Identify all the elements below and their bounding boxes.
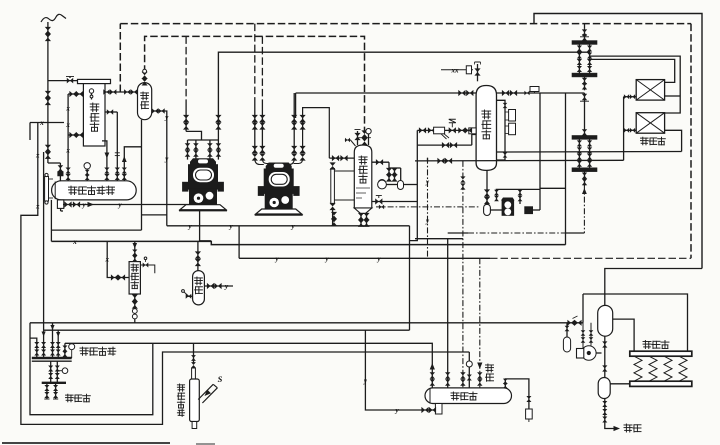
transfer line y=343.3 (manifold to drain drum) (65, 343, 432, 388)
valve on barrel top (477, 64, 479, 81)
svg-text:x: x (65, 147, 70, 155)
drain drum dashed riser x=462.9 (462, 161, 464, 388)
coil evaporator label (643, 341, 651, 349)
ammonia pump (dark) (502, 200, 514, 215)
bypass valves above pump (582, 323, 584, 348)
drum gauge riser x=469.3 (468, 352, 470, 388)
valve pair condenser left y=94 (69, 91, 73, 97)
intercooler left elbow fitting (345, 140, 356, 146)
evaporator crossed box 1 (636, 80, 664, 101)
air line y=241.5 to air separator and oil collector (51, 241, 565, 244)
valve with check flag on y=322.8 feed (567, 320, 571, 326)
wire condenser left bypass vertical x=68.1 (67, 94, 69, 166)
pipe break squiggle top-left (41, 14, 66, 22)
valve pair on C1 riser x=218 (215, 115, 221, 119)
C2 discharge riser x=302.6 over to intercooler (303, 108, 330, 159)
receiver bottom oil pot (57, 200, 63, 209)
wire C1 inlet manifold (186, 131, 201, 140)
svg-text:x: x (72, 238, 77, 246)
charging station label (66, 394, 74, 402)
air separator right vent valve (140, 265, 154, 273)
valve pair feed evaporator 1 (624, 96, 637, 98)
valve pair on line A (442, 142, 446, 148)
liquid line B y=160.9 to evaporator feed drop (415, 159, 624, 162)
receiver level gauge column (45, 177, 49, 202)
intercooler top-left riser with valve (357, 131, 359, 145)
coil evaporator bottom bar (630, 381, 692, 386)
compressor unit C1 suction riser (dashed above) (185, 36, 187, 100)
wire evaporator 2 return down to liquid line (665, 130, 682, 151)
small strainer capsule (398, 181, 404, 190)
barrel level column with pots (497, 100, 506, 160)
wire station branch line 1 to evaporators right side (590, 56, 681, 113)
pump motor (dark box) (525, 207, 533, 214)
wire corner line B to dash-dot drop x=427.5 (427, 158, 429, 161)
svg-text:x: x (39, 119, 44, 127)
compressor base (180, 205, 226, 210)
valve pair on drum inlet x=432.3 (430, 372, 435, 375)
intercooler label (359, 156, 367, 164)
oil separator liquid drain elbow to receiver with up arrow (124, 147, 141, 181)
wire header y=52.2 (218, 52, 589, 119)
C1 manifold drop x=195.9 with valve (195, 140, 197, 160)
float valve feed line y=130.4 (417, 129, 469, 131)
valve on squiggle line (upper) (45, 27, 51, 31)
regulating station riser 5 from transfer line (64, 343, 66, 358)
valve station outlet with double valve (584, 170, 586, 186)
receiver label (69, 186, 77, 194)
valves on C2 riser x=302.6 (300, 115, 306, 119)
valve pairs on y=92 (103, 89, 106, 95)
valve station upper flange bar (572, 41, 597, 45)
wire condenser left connection y=94 (68, 93, 83, 95)
condenser liquid outlet with down arrow to receiver (102, 141, 107, 181)
pump motor box (577, 349, 584, 359)
intercooler right valve cluster (388, 162, 390, 180)
drop to oil pot x=567 (566, 323, 568, 337)
emergency vent body (jin-ji-xie-an) (190, 379, 200, 422)
wire float feed riser x=417.3 down (410, 130, 418, 240)
valves on C2 riser x=262.4 (259, 115, 265, 119)
valve with handwheel on condenser top-left inlet (48, 80, 78, 82)
drops to charging station with valves (50, 361, 52, 383)
evaporator liquid line from barrel right side (497, 151, 682, 154)
wire compressor C1 crankcase oil drain (200, 205, 211, 241)
pressurizing line (jia-ya) dashed drop x=479.8 (479, 258, 481, 388)
wire pot to pump (490, 209, 502, 211)
wire condenser lower-left connection y=135 (68, 134, 83, 136)
wire discharge-to-oil-separator trunk y=36.4 (dashed) (145, 36, 365, 131)
valve station outlet with double valve (584, 75, 586, 90)
receiver drain line y=204.5 with valves (60, 208, 62, 211)
valve station lower flange bar (572, 73, 597, 77)
compressor top cap (266, 163, 292, 170)
charging station bar (jia-an-zhan) (42, 382, 66, 384)
pump suction pot (484, 204, 491, 215)
drain drum label (451, 392, 459, 400)
compressor lower block with sight circles (265, 194, 292, 210)
regulating station riser 4 from feed line with arrow (57, 330, 59, 358)
oil collector label (195, 277, 203, 285)
pump discharge top line (496, 188, 540, 190)
regulating valve with Z-handle (449, 127, 453, 133)
wire vertical x=540 from suction line to pump (539, 93, 541, 210)
valve pair on float feed (419, 127, 423, 133)
emergency vent riser (193, 343, 195, 363)
coil evaporator top bar (630, 351, 692, 356)
regulating station riser 1 elbow from inner frame (30, 338, 37, 358)
condenser vent fitting inside top (89, 89, 93, 93)
drain drum riser x=447.7 (to line y=236) (415, 238, 463, 240)
valves on C2 riser x=294.2 (291, 115, 297, 119)
coil evaporator bottom to capsule B (610, 383, 630, 385)
wire oil separator bottom drain vertical (141, 120, 143, 230)
wire right trunk vertical x=691 (dashed) (690, 24, 692, 259)
wire C2 suction drop corner (295, 93, 297, 118)
page artifact bottom-left streak (2, 442, 170, 444)
pump separator capsule A (598, 305, 613, 336)
valve on oil collector riser (195, 251, 201, 255)
C2 suction riser x=294.2 from suction line (293, 93, 295, 151)
wire C1 riser x=218.4 (217, 119, 219, 140)
intercooler conical bottom (354, 208, 372, 213)
low circ barrel label (482, 110, 491, 119)
C1 manifold drop x=209.9 with valve (209, 140, 211, 160)
air separator label (131, 264, 138, 271)
suction line from barrel left y=93 (296, 92, 477, 94)
svg-text:x: x (104, 256, 109, 264)
C2 riser x=262.4 (dashed above) (261, 36, 263, 100)
compressor side lugs (183, 182, 189, 191)
wire condenser right y=112 to riser (105, 111, 117, 113)
intercooler feed line from C2 with valve pair (329, 157, 354, 159)
wire x-line upper left y=122.5 (30, 122, 64, 124)
valve station lower flange bar (572, 168, 597, 172)
receiver top riser x=68.1 with valve pair (67, 166, 69, 181)
wire condenser right to oil separator y=92 (105, 91, 138, 93)
dash-dot drop x=427.5 with y labels (427, 158, 429, 258)
wire C2 right risers into machine (285, 159, 302, 165)
compressor side lugs (258, 187, 264, 196)
wire discharge header y=13.5 (top right solid) (534, 14, 702, 269)
wire left vertical x=583 (582, 294, 584, 323)
coil evaporator zigzag coils (634, 356, 642, 381)
valve pair on C1 riser x=186 (183, 115, 189, 119)
xx inlet line to low circ barrel (441, 69, 473, 71)
receiver top stub x=60.4 with dark valve (59, 163, 61, 181)
condenser top plate (78, 79, 111, 83)
valve on squiggle line (lower) (45, 145, 51, 149)
valve on oil separator top riser (142, 72, 148, 76)
section inner line y=294 (583, 294, 688, 351)
regulating station riser 3 from feed line with arrow (52, 323, 54, 358)
wire x-line corner x=107.2 (107, 242, 129, 278)
svg-text:S: S (218, 374, 223, 384)
wire pump discharge tee to x=565.5 (540, 187, 566, 189)
float chamber (434, 127, 445, 134)
valve pair before barrel nozzle (458, 127, 462, 133)
compressor waist band (187, 185, 219, 189)
pump bypass risers with valves (496, 189, 498, 200)
valve pair condenser left y=135 (69, 132, 73, 138)
valves between capsule A and B (602, 341, 607, 344)
compressor upper block with window (264, 169, 293, 190)
loop-seal drain pot (526, 409, 533, 419)
air separator bottom drain valves (134, 294, 136, 323)
compressor base (256, 209, 302, 214)
intercooler bottom drain valves (pair) (360, 213, 362, 226)
drain drum right loop-seal drain (505, 379, 529, 409)
oil collector left drain angle valve (186, 295, 193, 297)
wire station branch line 2 to evaporator 1 top-right (590, 59, 675, 82)
wire suction trunk y=23.6 (dashed) (119, 24, 121, 92)
intercooler right lower drain with valve (372, 201, 418, 203)
low circulation barrel vessel (di-xun-tong) (476, 86, 496, 171)
frame line y=268.5 into section (605, 269, 702, 306)
wire vertical from squiggle x=47.9 (47, 22, 49, 163)
capsule A right line to coil evaporator (613, 319, 634, 351)
wire receiver left staircase drain (50, 200, 52, 242)
intercooler gauge (368, 134, 370, 145)
intercooler level column drain with valves (332, 209, 334, 226)
feed line y=330.2 corner to riser 2 (44, 329, 410, 331)
evaporator crossed box 2 (636, 113, 664, 134)
intercooler right coil outlet with valve (372, 161, 389, 163)
valve station upper flange bar (572, 136, 597, 140)
condenser body (83, 84, 105, 146)
charging station down risers with valves (46, 383, 48, 399)
circulating pump circle (582, 346, 597, 361)
pressurizing label jia-ya (486, 364, 494, 372)
wire drain web vertical x=409.5 (409, 226, 411, 330)
oil collector right outlet with valves (204, 285, 233, 287)
valve pair on suction line at barrel (458, 90, 462, 96)
compressor upper block with window (189, 165, 218, 186)
intercooler liquid level hatching (356, 187, 370, 189)
C1 manifold drop x=187.5 with valve (187, 140, 189, 160)
valve on dashed riser (460, 176, 465, 179)
valve on squiggle line (middle) (45, 91, 51, 95)
valve pair on oil drain (152, 108, 155, 114)
wire capsule A down to pump (604, 336, 606, 377)
float switch device on suction line (530, 87, 539, 92)
valve station parallel branches with valves (578, 43, 580, 76)
valve station riser with double valve (584, 29, 586, 43)
compressor lower block with sight circles (190, 189, 217, 205)
inner frame loop (30, 323, 153, 415)
wire riser x=239.1 connecting oil lines (238, 226, 240, 258)
valve pair into air separator (111, 274, 115, 280)
oil line y=225.8 from oil separator drain to drain web (167, 225, 410, 227)
oil drain line fang-you with valves (604, 399, 606, 425)
regulating station gauge (69, 344, 75, 350)
condenser label (vertical CJK) (90, 103, 99, 112)
valves on C2 riser x=254.8 (252, 115, 258, 119)
suction line right of barrel to valve station (497, 92, 585, 94)
valves on emergency vent riser (191, 355, 196, 358)
valve pair right of barrel (502, 90, 506, 96)
air separator top riser with arrow and valves (134, 241, 136, 261)
regulating station manifold bar (32, 357, 72, 360)
emergency vent neck (192, 368, 196, 379)
drain drum oil pot below (435, 404, 442, 415)
liquid line A y=145.1 to barrel nozzle zone (417, 144, 472, 146)
dash-dot riser below lower station with up arrow (583, 185, 585, 233)
intercooler vessel (354, 145, 372, 208)
emergency vent diagonal inlet with S arrow (198, 384, 213, 399)
C1 manifold drop x=218.4 with valve (217, 140, 219, 160)
regulating station riser 2 (long x line) with arrow (43, 330, 45, 358)
oil/y line y=258.3 (long, to right trunk) (239, 257, 490, 259)
wire strainer to float-line vertical (404, 184, 418, 186)
feed line y=322.8 long (regulating station to pump section) (30, 322, 583, 324)
dash-dot oil return line y=206.9 (376, 206, 480, 208)
svg-text:x: x (65, 121, 70, 129)
evaporator label (zheng-fa-qi) (641, 137, 649, 145)
oil collector vessel (ji-you-qi) (193, 271, 205, 305)
receiver vessel body (gao-ya-zhu-ye-tong) (52, 181, 137, 200)
valve station parallel branches with valves (578, 137, 580, 169)
valve on y=112 (107, 109, 110, 115)
wire branch to receiver stub (48, 162, 61, 164)
emergency vent label (177, 384, 184, 391)
barrel bottom outlet with valves (486, 170, 488, 204)
intercooler level column (331, 169, 335, 204)
drain drum bottom-left y line (365, 330, 435, 410)
wire evaporator feed drop x=623.6 (623, 97, 625, 161)
C2 suction riser x=254.8 (dashed above) (254, 24, 256, 100)
air separator body (kong-fen-qi) (129, 262, 140, 294)
svg-text:xx: xx (451, 66, 460, 74)
svg-text:x: x (65, 105, 70, 113)
receiver pressure gauge (86, 170, 88, 181)
valve pair feed evaporator 2 (624, 129, 637, 131)
emergency vent bottom stub (192, 422, 197, 429)
oil drain label fang-you (624, 424, 632, 432)
charging station gauge (62, 368, 68, 374)
wire long x-riser x=43.6 (condenser zone to regulating station riser 2) (43, 152, 45, 330)
oil separator label (141, 92, 149, 100)
barrel left liquid-feed nozzle (469, 128, 476, 134)
valve pair on riser x=447.7 (445, 372, 450, 375)
valve station riser with double valve (584, 93, 586, 137)
wire tee into evaporator 1 right-mid (665, 95, 681, 97)
valve pair on line B (437, 158, 441, 164)
thick oil header riser x=565.5 from suction line (565, 93, 567, 245)
valve pair on bottom y line (421, 407, 425, 413)
oil separator vessel (you-fen) (138, 83, 152, 120)
valve pair on riser x=462.9 at drum (460, 372, 465, 375)
intercooler top riser to trunk with valve (361, 130, 367, 134)
wire oil separator right oil drain (152, 111, 167, 226)
wire C2 left risers into machine (255, 159, 272, 165)
drain drum vessel (425, 388, 512, 404)
oil collector riser from air line (197, 242, 199, 271)
capsule B (oil pot) (598, 378, 610, 399)
upper valve station (to evaporators) (584, 24, 586, 29)
transfer line arrow into drain drum (430, 363, 435, 370)
regulating station label (zong-tiao-jie-zhan) (80, 347, 88, 355)
receiver top riser x=117.3 from condenser right line (116, 112, 118, 181)
compressor waist band (263, 190, 295, 194)
compressor top cap (190, 158, 216, 165)
float regulator device on intercooler (378, 180, 387, 189)
